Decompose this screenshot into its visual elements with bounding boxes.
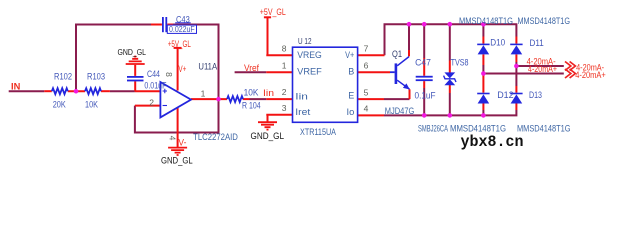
svg-text:D11: D11 [530,38,544,48]
svg-text:R102: R102 [54,72,72,82]
svg-text:C43: C43 [176,14,190,24]
svg-text:1: 1 [282,61,287,71]
svg-text:VREF: VREF [297,66,322,76]
svg-text:TLC2272AID: TLC2272AID [193,132,238,142]
svg-text:R103: R103 [87,72,105,82]
svg-text:GND_GL: GND_GL [251,131,285,141]
svg-text:U 12: U 12 [298,36,312,46]
svg-text:B: B [348,66,354,76]
svg-text:Io: Io [347,107,355,117]
svg-text:Iret: Iret [295,107,311,117]
svg-text:1: 1 [201,88,206,98]
svg-text:C44: C44 [147,69,160,79]
svg-text:6: 6 [364,61,369,71]
svg-text:0.01uF: 0.01uF [144,80,166,90]
svg-text:0.1uF: 0.1uF [415,90,436,100]
svg-text:Q1: Q1 [392,49,402,59]
svg-text:Vref: Vref [244,63,259,73]
svg-text:GND_GL: GND_GL [161,156,193,166]
svg-text:SMBJ26CA: SMBJ26CA [418,124,448,134]
svg-text:VREG: VREG [297,50,322,60]
svg-text:10K: 10K [85,100,98,110]
svg-text:7: 7 [364,44,369,54]
svg-text:U11A: U11A [198,62,217,72]
svg-text:10K: 10K [244,88,259,98]
svg-text:MJD47G: MJD47G [385,106,415,116]
svg-text:Iin: Iin [263,88,274,98]
svg-text:IN: IN [11,81,20,91]
svg-text:V+: V+ [178,64,186,74]
svg-text:20K: 20K [53,100,66,110]
svg-text:8: 8 [282,44,287,54]
svg-text:C47: C47 [415,57,431,67]
svg-text:+5V_GL: +5V_GL [260,7,286,17]
svg-text:V+: V+ [345,50,354,60]
svg-text:4: 4 [168,136,178,141]
svg-text:MMSD4148T1G: MMSD4148T1G [459,16,513,26]
svg-text:3: 3 [282,103,287,113]
svg-text:2: 2 [282,87,287,97]
svg-text:2: 2 [149,98,154,108]
svg-text:4-20mA+: 4-20mA+ [528,64,557,74]
svg-text:D10: D10 [490,38,505,48]
svg-text:8: 8 [164,72,174,77]
svg-text:R 104: R 104 [242,101,261,111]
svg-text:+5V_GL: +5V_GL [168,39,191,49]
svg-text:Iin: Iin [295,92,308,102]
svg-text:XTR115UA: XTR115UA [300,127,336,137]
svg-text:4: 4 [364,103,369,113]
svg-text:GND_GL: GND_GL [118,47,147,57]
svg-text:D13: D13 [529,90,542,100]
svg-text:TVS8: TVS8 [451,57,469,67]
svg-text:ybx8.cn: ybx8.cn [461,133,524,151]
svg-text:E: E [348,91,354,101]
svg-text:MMSD4148T1G: MMSD4148T1G [517,124,571,134]
svg-text:D12: D12 [497,90,513,100]
svg-text:0.022uF: 0.022uF [169,25,195,34]
svg-text:MMSD4148T1G: MMSD4148T1G [518,16,571,26]
svg-text:5: 5 [364,88,369,98]
svg-text:4-20mA+: 4-20mA+ [575,70,606,80]
svg-text:V-: V- [178,137,186,147]
